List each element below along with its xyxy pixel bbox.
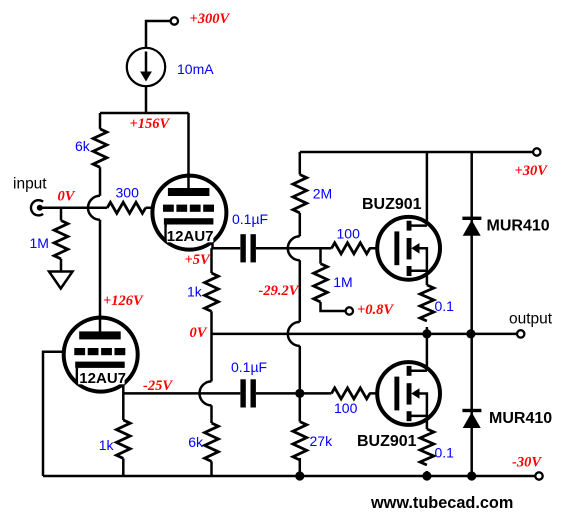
svg-text:0V: 0V <box>58 189 76 205</box>
svg-text:-30V: -30V <box>512 455 542 471</box>
svg-text:+5V: +5V <box>185 252 212 268</box>
svg-text:+30V: +30V <box>515 163 549 179</box>
svg-text:BUZ901: BUZ901 <box>362 196 422 213</box>
svg-text:6k: 6k <box>188 434 204 450</box>
svg-text:1M: 1M <box>333 274 352 290</box>
svg-text:1k: 1k <box>187 284 203 300</box>
svg-text:12AU7: 12AU7 <box>79 370 126 387</box>
svg-text:10mA: 10mA <box>177 61 214 77</box>
svg-text:BUZ901: BUZ901 <box>357 433 417 450</box>
svg-text:27k: 27k <box>310 433 334 449</box>
svg-text:output: output <box>509 311 553 328</box>
svg-text:2M: 2M <box>313 186 332 202</box>
svg-text:input: input <box>13 176 47 193</box>
svg-text:6k: 6k <box>75 138 91 154</box>
svg-text:0.1µF: 0.1µF <box>232 211 268 227</box>
svg-text:1M: 1M <box>30 235 49 251</box>
svg-text:MUR410: MUR410 <box>489 410 552 427</box>
svg-text:+300V: +300V <box>190 11 231 27</box>
svg-text:0.1µF: 0.1µF <box>231 359 267 375</box>
svg-text:-29.2V: -29.2V <box>259 283 300 299</box>
svg-text:-25V: -25V <box>143 378 173 394</box>
svg-text:0.1: 0.1 <box>435 298 455 314</box>
svg-text:0.1: 0.1 <box>435 445 455 461</box>
svg-text:100: 100 <box>337 226 361 242</box>
svg-text:100: 100 <box>334 400 358 416</box>
svg-text:12AU7: 12AU7 <box>167 228 214 245</box>
svg-text:+126V: +126V <box>103 293 144 309</box>
svg-text:+156V: +156V <box>130 116 171 132</box>
svg-text:www.tubecad.com: www.tubecad.com <box>370 494 513 512</box>
svg-text:1k: 1k <box>99 437 115 453</box>
svg-text:0V: 0V <box>190 325 208 341</box>
svg-text:300: 300 <box>116 185 140 201</box>
svg-text:+0.8V: +0.8V <box>357 302 394 318</box>
svg-text:MUR410: MUR410 <box>487 218 550 235</box>
